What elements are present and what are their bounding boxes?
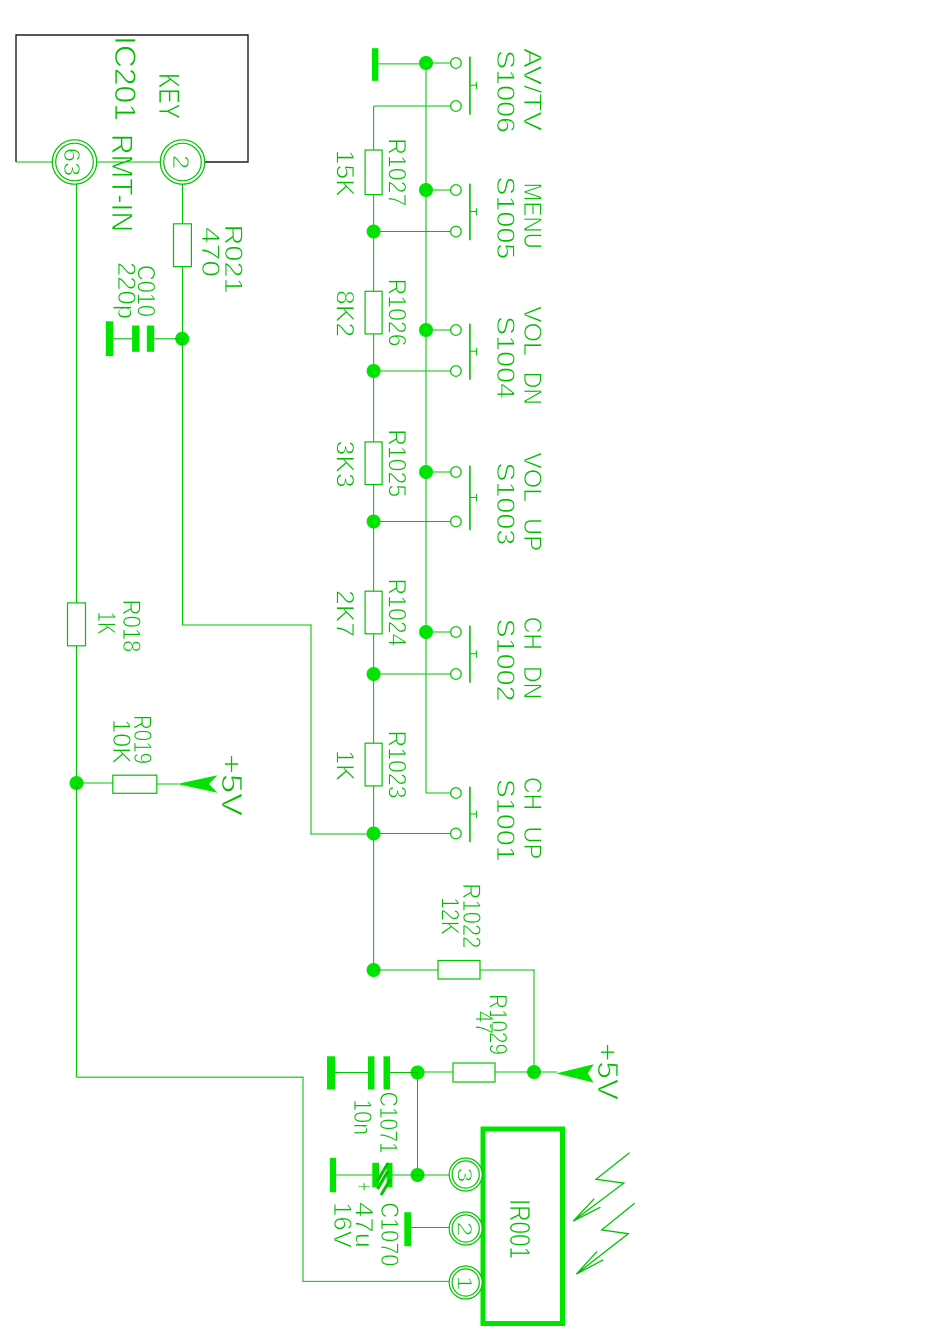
chain wire segment 1 [373, 106, 375, 150]
C010 value 220p [112, 262, 140, 319]
S1002 button stem [470, 653, 477, 655]
svg-text:R1027: R1027 [383, 138, 411, 206]
wire chain to R1022 [374, 969, 438, 971]
pushbutton switch S1001 [374, 787, 477, 843]
wire node to IR pin3 [418, 1174, 450, 1176]
wire C1071 node to C1070 node [417, 1073, 419, 1176]
wire jog vertical [182, 624, 312, 626]
resistor R019 [113, 775, 157, 793]
resistor R1026 [365, 291, 382, 334]
S1002 contact A [451, 627, 462, 638]
S1003 button bar [469, 466, 471, 531]
C010 stem [113, 338, 132, 340]
C1071 value 10n [348, 1099, 376, 1135]
S1005 contact B [451, 226, 462, 237]
R1022 label [457, 883, 485, 948]
wire S1004 contact A to bus [426, 329, 451, 331]
capacitor C1071 plate 1 [384, 1056, 391, 1089]
capacitor C1071 plate 2 [368, 1056, 375, 1089]
junction chain/S1003 [367, 515, 381, 529]
R018 value 1K [92, 612, 120, 635]
svg-text:AV/TV: AV/TV [518, 48, 546, 131]
wire box edge between pin 2 and pin 63 [97, 161, 161, 163]
pin label KEY [152, 73, 185, 119]
svg-text:R1025: R1025 [383, 429, 411, 497]
svg-text:VOL: VOL [518, 306, 546, 356]
pushbutton switch S1006 [374, 57, 477, 115]
S1004 contact A [451, 325, 462, 336]
svg-text:220p: 220p [112, 262, 140, 319]
svg-text:1: 1 [453, 1276, 477, 1291]
wire S1005 contact A to bus [426, 189, 451, 191]
wire R1022 up [480, 969, 535, 971]
C1071 stem [335, 1072, 368, 1074]
svg-text:VOL: VOL [518, 452, 546, 502]
svg-text:R1023: R1023 [383, 731, 411, 799]
R019 value 10K [107, 719, 135, 764]
S1006 designator label [491, 50, 519, 133]
svg-text:CH: CH [518, 777, 546, 810]
pushbutton switch S1002 [374, 626, 477, 683]
svg-text:63: 63 [59, 148, 85, 177]
wire S1006 contact A to bus [426, 62, 451, 64]
+5V label (R019) [215, 754, 247, 817]
bus wire (switch common) [425, 64, 427, 793]
svg-text:IR001: IR001 [503, 1199, 535, 1259]
wire S1004 contact B to ladder [374, 370, 451, 372]
svg-text:RMT-IN: RMT-IN [105, 134, 138, 232]
junction chain/S1005 [367, 225, 381, 239]
wire S1002 contact A to bus [426, 631, 451, 633]
S1003 contact A [451, 467, 462, 478]
S1005 contact A [451, 185, 462, 196]
resistor R1027 [365, 150, 382, 195]
svg-text:CH: CH [518, 617, 546, 650]
C1070 value + 47u [350, 1182, 379, 1248]
S1006 button bar [469, 57, 471, 115]
ground bar at IR pin2 [404, 1212, 411, 1246]
S1002 function label CH DN [518, 617, 546, 699]
svg-text:470: 470 [196, 227, 224, 277]
wire node to C1070 [393, 1174, 418, 1176]
wire S1001 contact A to bus [426, 792, 451, 794]
svg-text:R1024: R1024 [383, 579, 411, 647]
R1027 label [383, 138, 411, 206]
S1002 contact B [451, 669, 462, 680]
wire R1022 top horizontal [533, 969, 535, 1072]
IR ray arrow 2 [576, 1203, 634, 1274]
svg-text:R018: R018 [117, 600, 145, 653]
svg-text:2K7: 2K7 [331, 590, 359, 637]
resistor R1025 [365, 442, 382, 485]
C1070 stem [336, 1174, 372, 1176]
svg-text:S1001: S1001 [491, 779, 519, 862]
wire RMT vertical up [77, 1076, 304, 1078]
wire pin2 to R021 [182, 184, 184, 224]
S1006 button stem [470, 84, 477, 86]
junction chain/S1001 [367, 827, 381, 841]
pushbutton switch S1005 [374, 184, 477, 241]
wire node to C1071 [390, 1072, 418, 1074]
capacitor C010 plate 1 [147, 326, 154, 352]
svg-text:2: 2 [453, 1222, 477, 1237]
wire R1029 to C1071 node [418, 1071, 454, 1073]
chain wire segment 5 [373, 634, 375, 743]
S1005 function label MENU [518, 183, 546, 249]
IR ray arrow 1 [573, 1153, 629, 1221]
svg-text:C1071: C1071 [374, 1092, 402, 1154]
junction chain/S1004 [367, 364, 381, 378]
node RMT/R019 junction [70, 776, 84, 790]
svg-text:+5V: +5V [591, 1043, 623, 1101]
S1006 contact B [451, 101, 462, 112]
wire S1001 contact B to ladder [374, 833, 451, 835]
S1004 button stem [470, 350, 477, 352]
R1025 label [383, 429, 411, 497]
IR001 pin 2 [449, 1212, 482, 1245]
IR001 pin 3 [449, 1158, 482, 1191]
ground bar at C1070 [330, 1158, 336, 1193]
svg-text:8K2: 8K2 [331, 290, 359, 337]
R021 label [219, 225, 247, 294]
junction bus/S1002 [419, 625, 433, 639]
svg-text:S1004: S1004 [491, 316, 519, 399]
R1023 value 1K [331, 750, 359, 781]
pin 63 of IC201 (RMT-IN) [52, 140, 96, 184]
svg-text:3K3: 3K3 [331, 441, 359, 488]
bus bend up to S1001 [426, 792, 451, 794]
R1025 value 3K3 [331, 441, 359, 488]
svg-text:1K: 1K [331, 750, 359, 781]
+5V label (R1029) [591, 1043, 623, 1101]
svg-text:47: 47 [470, 1011, 498, 1034]
node C1070 junction [411, 1168, 425, 1182]
IR001 label [503, 1199, 535, 1259]
R1023 label [383, 731, 411, 799]
S1001 button bar [469, 787, 471, 843]
ground bar at bus start [372, 48, 378, 81]
wire node to R019 [77, 782, 113, 784]
R021 value 470 [196, 227, 224, 277]
pin 2 of IC201 (KEY) [160, 140, 204, 184]
S1004 contact B [451, 366, 462, 377]
capacitor C1070 hatched plate [372, 1163, 390, 1195]
C1071 label [374, 1092, 402, 1154]
node C1071 junction [411, 1066, 425, 1080]
S1005 button stem [470, 210, 477, 212]
R1029 value 47 [470, 1011, 498, 1034]
power arrow +5V (R019) [177, 775, 218, 793]
svg-text:KEY: KEY [152, 73, 185, 119]
pin label RMT-IN [105, 134, 138, 232]
chain wire segment 4 [373, 485, 375, 592]
svg-text:15K: 15K [331, 150, 359, 197]
junction bus/S1004 [419, 323, 433, 337]
svg-text:S1002: S1002 [491, 619, 519, 702]
R1026 label [383, 279, 411, 347]
wire RMT node down-right run [76, 783, 78, 1077]
svg-text:12K: 12K [436, 897, 464, 935]
junction bus/S1005 [419, 183, 433, 197]
node +5V/R1029 junction [527, 1065, 541, 1079]
svg-text:UP: UP [518, 518, 546, 551]
wire S1003 contact B to ladder [374, 521, 451, 523]
power arrow +5V (R1029) [556, 1064, 594, 1082]
svg-text:R1026: R1026 [383, 279, 411, 347]
IC201 label [108, 36, 141, 121]
svg-text:1K: 1K [92, 612, 120, 635]
svg-text:3: 3 [453, 1168, 477, 1183]
S1005 designator label [491, 176, 519, 259]
S1004 function label VOL DN [518, 306, 546, 405]
svg-text:UP: UP [518, 826, 546, 859]
pushbutton switch S1004 [374, 324, 477, 380]
node KEY/C010 junction [175, 332, 189, 346]
wire box edge below pin 63 [16, 161, 52, 163]
svg-text:DN: DN [518, 666, 546, 699]
S1006 function label AV/TV [518, 48, 546, 131]
svg-text:2: 2 [168, 155, 194, 169]
wire +5V node to R1029 [495, 1071, 534, 1073]
R019 label [128, 715, 156, 764]
wire R021 to C010 node [182, 267, 184, 339]
R1024 label [383, 579, 411, 647]
S1001 contact B [451, 828, 462, 839]
S1003 designator label [491, 462, 519, 545]
resistor R1024 [365, 591, 382, 634]
wire S1002 contact B to ladder [374, 673, 451, 675]
R1029 label [484, 994, 512, 1055]
resistor R1023 [365, 743, 382, 786]
wire RMT up to IR pin1 [302, 1280, 449, 1282]
svg-text:+: + [350, 1182, 378, 1191]
capacitor C010 plate 2 [132, 326, 139, 352]
S1002 button bar [469, 626, 471, 683]
S1001 button stem [470, 813, 477, 815]
svg-text:+5V: +5V [215, 754, 247, 817]
resistor R018 [68, 603, 86, 646]
wire pin63 to R018 [76, 184, 78, 603]
resistor R1022 [438, 961, 480, 980]
svg-text:16V: 16V [328, 1202, 356, 1248]
capacitor C1070 plate + [387, 1163, 393, 1188]
junction bus/S1006 [419, 56, 433, 70]
IC box IC201 (black outline) [16, 35, 248, 162]
wire S1003 contact A to bus [426, 471, 451, 473]
wire RMT horizontal [302, 1077, 304, 1281]
C1070 value 16V [328, 1202, 356, 1248]
R018 label [117, 600, 145, 653]
svg-text:MENU: MENU [518, 183, 546, 249]
junction chain end [367, 963, 381, 977]
junction chain/S1002 [367, 667, 381, 681]
wire jog up to chain [310, 833, 373, 835]
wire node to +5V arrow [534, 1071, 557, 1073]
S1006 contact A [451, 58, 462, 69]
wire S1005 contact B to ladder [374, 231, 451, 233]
S1003 button stem [470, 496, 477, 498]
S1001 contact A [451, 788, 462, 799]
C1070 label [375, 1202, 403, 1266]
junction bus/S1003 [419, 465, 433, 479]
ground bar at C010 [106, 321, 113, 356]
R1026 value 8K2 [331, 290, 359, 337]
S1005 button bar [469, 184, 471, 241]
svg-text:S1006: S1006 [491, 50, 519, 133]
chain wire segment 3 [373, 334, 375, 442]
S1004 designator label [491, 316, 519, 399]
wire S1006 contact B to ladder [374, 105, 451, 107]
wire node to C010 plate [154, 338, 182, 340]
svg-text:IC201: IC201 [108, 36, 141, 121]
chain wire segment 2 [373, 195, 375, 292]
resistor R021 [174, 224, 192, 267]
IR001 pin 1 [449, 1266, 482, 1299]
C010 label [131, 265, 159, 317]
svg-text:S1003: S1003 [491, 462, 519, 545]
wire R018 to R019 node [76, 646, 78, 783]
S1003 function label VOL UP [518, 452, 546, 551]
svg-text:C1070: C1070 [375, 1202, 403, 1266]
R1022 value 12K [436, 897, 464, 935]
wire jog horizontal [310, 624, 312, 834]
wire R019 to +5V arrow [157, 783, 178, 785]
wire IR pin2 to ground bar [411, 1227, 449, 1229]
R1024 value 2K7 [331, 590, 359, 637]
svg-text:S1005: S1005 [491, 176, 519, 259]
S1004 button bar [469, 324, 471, 380]
svg-text:10K: 10K [107, 719, 135, 764]
ground bar at C1071 [327, 1056, 335, 1089]
chain wire segment 6 [373, 786, 375, 970]
S1001 designator label [491, 779, 519, 862]
svg-text:10n: 10n [348, 1099, 376, 1135]
svg-text:DN: DN [518, 372, 546, 405]
pushbutton switch S1003 [374, 466, 477, 531]
S1001 function label CH UP [518, 777, 546, 859]
wire KEY node to jog [182, 339, 184, 625]
IR receiver IR001 box [483, 1129, 563, 1324]
S1003 contact B [451, 516, 462, 527]
ground stem at bus start [378, 63, 426, 65]
S1002 designator label [491, 619, 519, 702]
resistor R1029 [453, 1063, 495, 1082]
R1027 value 15K [331, 150, 359, 197]
